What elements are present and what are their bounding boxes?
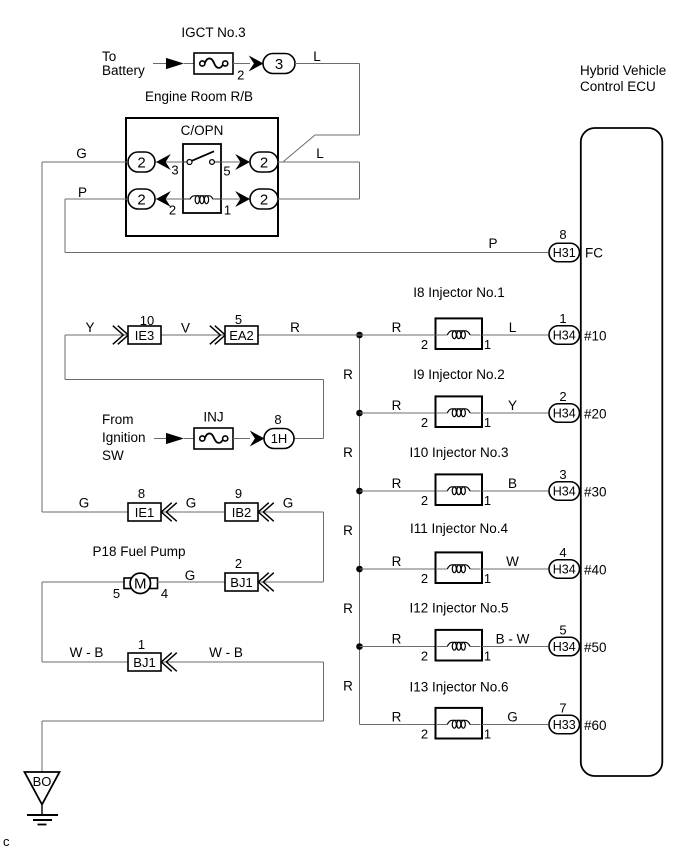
wire L return [315, 134, 360, 136]
arrowhead into connector 3 [249, 56, 264, 72]
svg-text:W: W [506, 554, 519, 569]
wire bus to injector I11 [360, 568, 436, 570]
svg-text:R: R [343, 601, 353, 616]
svg-text:c: c [3, 834, 10, 849]
wire injector I13 to ECU [482, 724, 548, 726]
svg-text:H33: H33 [553, 718, 576, 732]
ground bars [27, 815, 58, 825]
wire 1H to loop [294, 438, 324, 440]
svg-text:I13 Injector No.6: I13 Injector No.6 [409, 680, 508, 695]
connector oval 2 pin 1 side [250, 189, 278, 209]
connector IE1 [128, 503, 161, 521]
svg-text:9: 9 [235, 486, 242, 501]
junction node row #30 [356, 488, 363, 495]
svg-text:#50: #50 [584, 640, 607, 655]
svg-text:Ignition: Ignition [102, 430, 146, 445]
wire G left vertical [41, 162, 43, 512]
svg-text:EA2: EA2 [229, 328, 254, 343]
svg-text:Engine Room R/B: Engine Room R/B [145, 89, 253, 104]
chevron IE1 [161, 503, 177, 522]
junction node row #10 [356, 332, 363, 339]
svg-text:1: 1 [484, 727, 491, 742]
wire IE1 row [42, 511, 324, 513]
wire injector I12 to ECU [482, 646, 548, 648]
svg-text:W - B: W - B [70, 645, 104, 660]
arrowhead pin 2 [156, 191, 171, 207]
wire P horizontal [65, 198, 128, 200]
wire battery stub [153, 63, 166, 65]
svg-text:R: R [392, 632, 402, 647]
svg-text:4: 4 [559, 545, 566, 560]
wire P vertical [64, 199, 66, 253]
wire L horizontal [295, 63, 360, 65]
wire G horizontal [42, 161, 128, 163]
connector oval 2 pin 5 side [250, 152, 278, 172]
svg-text:Y: Y [85, 320, 94, 335]
connector 1H oval [264, 429, 294, 449]
svg-text:2: 2 [137, 155, 145, 172]
svg-text:C/OPN: C/OPN [181, 123, 224, 138]
svg-text:B: B [508, 476, 517, 491]
svg-text:R: R [392, 476, 402, 491]
svg-text:1: 1 [484, 415, 491, 430]
svg-text:2: 2 [421, 337, 428, 352]
svg-text:INJ: INJ [203, 410, 223, 425]
wire ignition stub [154, 438, 167, 440]
svg-text:#10: #10 [584, 329, 607, 344]
connector EA2 [225, 326, 258, 344]
svg-text:2: 2 [137, 192, 145, 209]
svg-text:5: 5 [223, 164, 230, 179]
svg-text:R: R [343, 445, 353, 460]
wire fuse to connector 3 [233, 63, 250, 65]
svg-text:2: 2 [559, 389, 566, 404]
chevron BJ1 pump [258, 573, 274, 592]
fuel pump motor P18 [124, 573, 158, 593]
wire P row to ECU [65, 252, 548, 254]
svg-text:H34: H34 [553, 485, 576, 499]
injector I12 coil [436, 630, 483, 661]
wire injector bus vertical [359, 335, 361, 725]
connector BJ1 pump [225, 573, 258, 591]
wire fuse INJ to 1H [233, 438, 250, 440]
svg-text:Hybrid Vehicle: Hybrid Vehicle [580, 63, 666, 78]
fuse INJ [194, 428, 233, 449]
svg-text:3: 3 [171, 163, 178, 178]
wire W-B row [42, 661, 324, 663]
svg-text:L: L [316, 146, 324, 161]
svg-text:3: 3 [275, 56, 283, 73]
svg-text:#30: #30 [584, 485, 607, 500]
relay C/OPN inner box [183, 144, 221, 213]
svg-text:1H: 1H [271, 431, 288, 446]
svg-text:R: R [392, 320, 402, 335]
chevron EA2 [210, 326, 226, 345]
svg-text:1: 1 [138, 637, 145, 652]
wire Y loop right vertical [323, 380, 325, 439]
injector I9 coil [436, 396, 483, 427]
wire Y loop vertical left [64, 335, 66, 380]
svg-text:2: 2 [260, 192, 268, 209]
wire injector I10 to ECU [482, 490, 548, 492]
wire relay switch right to oval [221, 161, 250, 163]
connector H34 row #40 [549, 560, 580, 579]
injector I11 coil [436, 552, 483, 583]
injector I13 coil [436, 708, 483, 739]
svg-text:FC: FC [585, 246, 603, 261]
svg-text:Battery: Battery [102, 63, 145, 78]
svg-text:M: M [134, 576, 147, 593]
wire IB2 to BJ1 vertical [323, 512, 325, 582]
svg-text:2: 2 [421, 571, 428, 586]
svg-text:2: 2 [235, 556, 242, 571]
svg-text:G: G [185, 568, 196, 583]
svg-text:IE3: IE3 [135, 328, 155, 343]
svg-text:IE1: IE1 [135, 505, 155, 520]
svg-text:7: 7 [559, 701, 566, 716]
injector I8 coil [436, 318, 483, 349]
connector IB2 [225, 503, 258, 521]
svg-text:R: R [343, 367, 353, 382]
svg-text:SW: SW [102, 448, 124, 463]
svg-text:3: 3 [559, 467, 566, 482]
svg-text:I11 Injector No.4: I11 Injector No.4 [410, 521, 509, 536]
wire oval to relay coil left [155, 198, 183, 200]
arrowhead into 1H [250, 431, 265, 447]
wire bus to injector I9 [360, 412, 436, 414]
injector I10 coil [436, 474, 483, 505]
svg-text:L: L [509, 320, 517, 335]
svg-text:2: 2 [260, 155, 268, 172]
svg-text:5: 5 [235, 312, 242, 327]
connector BJ1 WB [128, 653, 161, 671]
svg-text:R: R [392, 554, 402, 569]
svg-text:P: P [78, 185, 87, 200]
arrowhead pin 5 [235, 154, 250, 170]
connector H34 row #20 [549, 404, 580, 423]
svg-text:IB2: IB2 [232, 505, 252, 520]
svg-text:H34: H34 [553, 407, 576, 421]
ground stem [41, 805, 43, 815]
wire injector I8 to ECU [482, 334, 548, 336]
wire L vertical [359, 64, 361, 136]
wire arrow to fuse INJ [184, 438, 194, 440]
connector IE3 [128, 326, 161, 344]
ground BO triangle [25, 772, 60, 805]
arrowhead pin 3 [156, 154, 171, 170]
svg-text:BJ1: BJ1 [133, 655, 155, 670]
arrowhead pin 1 [235, 191, 250, 207]
wire relay output vertical [359, 162, 361, 199]
wire relay switch output [278, 161, 360, 163]
svg-text:I12 Injector No.5: I12 Injector No.5 [409, 601, 508, 616]
svg-text:H31: H31 [553, 246, 576, 260]
svg-text:G: G [507, 710, 518, 725]
wire oval to relay switch left [155, 161, 183, 163]
wire injector I11 to ECU [482, 568, 548, 570]
svg-text:R: R [343, 523, 353, 538]
svg-text:8: 8 [559, 227, 566, 242]
svg-text:2: 2 [237, 68, 244, 83]
svg-text:H34: H34 [553, 640, 576, 654]
svg-text:#20: #20 [584, 407, 607, 422]
svg-text:2: 2 [421, 415, 428, 430]
svg-text:4: 4 [161, 586, 168, 601]
svg-text:P18 Fuel Pump: P18 Fuel Pump [92, 544, 185, 559]
junction node row #20 [356, 410, 363, 417]
svg-text:G: G [79, 496, 90, 511]
svg-text:From: From [102, 412, 134, 427]
svg-text:5: 5 [113, 586, 120, 601]
wire ignition feed row [65, 334, 436, 336]
relay coil [183, 196, 221, 204]
svg-text:BO: BO [33, 774, 52, 789]
svg-text:1: 1 [484, 493, 491, 508]
svg-text:IGCT No.3: IGCT No.3 [181, 25, 245, 40]
svg-text:5: 5 [559, 623, 566, 638]
wire Y loop bottom [65, 379, 324, 381]
wire relay coil output [278, 198, 360, 200]
wire bus to injector I12 [360, 646, 436, 648]
connector oval 3 [263, 54, 295, 74]
svg-text:1: 1 [484, 649, 491, 664]
ECU box Hybrid Vehicle Control ECU [581, 128, 663, 776]
svg-text:H34: H34 [553, 563, 576, 577]
svg-text:Control ECU: Control ECU [580, 79, 656, 94]
svg-text:I10 Injector No.3: I10 Injector No.3 [409, 445, 508, 460]
wire ground vertical [41, 721, 43, 772]
arrow from battery [166, 58, 184, 69]
wire bus to injector I13 [360, 724, 436, 726]
connector oval 2 pin 2 side [128, 189, 155, 209]
wire pump row left [42, 581, 124, 583]
junction node row #50 [356, 643, 363, 650]
wire arrow to fuse IGCT [184, 63, 194, 65]
connector oval 2 pin 3 side [128, 152, 155, 172]
svg-text:P: P [488, 236, 497, 251]
svg-text:8: 8 [274, 412, 281, 427]
wire pump left vertical [41, 582, 43, 662]
svg-text:V: V [181, 321, 190, 336]
svg-text:I9 Injector No.2: I9 Injector No.2 [413, 367, 505, 382]
svg-text:#60: #60 [584, 718, 607, 733]
connector H33 row #60 [549, 715, 580, 734]
svg-text:G: G [76, 146, 87, 161]
chevron IE3 [113, 326, 129, 345]
svg-text:G: G [283, 496, 294, 511]
svg-text:1: 1 [559, 311, 566, 326]
wire relay coil right to oval [221, 198, 250, 200]
svg-text:To: To [102, 49, 116, 64]
svg-text:H34: H34 [553, 329, 576, 343]
connector H34 row #30 [549, 482, 580, 501]
svg-text:2: 2 [421, 493, 428, 508]
chevron IB2 [258, 503, 274, 522]
svg-text:8: 8 [138, 486, 145, 501]
svg-text:W - B: W - B [209, 645, 243, 660]
wire injector I9 to ECU [482, 412, 548, 414]
connector H34 row #10 [549, 326, 580, 345]
svg-text:L: L [313, 49, 321, 64]
svg-text:1: 1 [484, 571, 491, 586]
svg-text:I8 Injector No.1: I8 Injector No.1 [413, 285, 505, 300]
wire W-B right vertical [323, 662, 325, 721]
svg-text:2: 2 [421, 649, 428, 664]
svg-text:#40: #40 [584, 563, 607, 578]
relay switch contact [183, 151, 221, 164]
svg-text:G: G [186, 496, 197, 511]
svg-text:R: R [392, 710, 402, 725]
svg-text:2: 2 [169, 203, 176, 218]
relay block box Engine Room R/B [126, 118, 278, 236]
fuse IGCT No.3 [194, 53, 233, 74]
connector H31 [549, 243, 580, 262]
svg-text:2: 2 [421, 727, 428, 742]
chevron BJ1 WB [161, 653, 177, 672]
svg-text:B - W: B - W [496, 632, 530, 647]
svg-text:BJ1: BJ1 [230, 575, 252, 590]
arrow from ignition SW [166, 433, 184, 444]
svg-text:R: R [343, 679, 353, 694]
svg-text:Y: Y [508, 398, 517, 413]
svg-text:R: R [290, 320, 300, 335]
junction node row #40 [356, 566, 363, 573]
svg-text:R: R [392, 398, 402, 413]
wire ground return horizontal [42, 720, 324, 722]
svg-text:1: 1 [484, 337, 491, 352]
connector H34 row #50 [549, 637, 580, 656]
wire pump to BJ1 [158, 581, 324, 583]
svg-text:1: 1 [224, 203, 231, 218]
wire L diagonal [284, 135, 316, 162]
wire bus to injector I10 [360, 490, 436, 492]
